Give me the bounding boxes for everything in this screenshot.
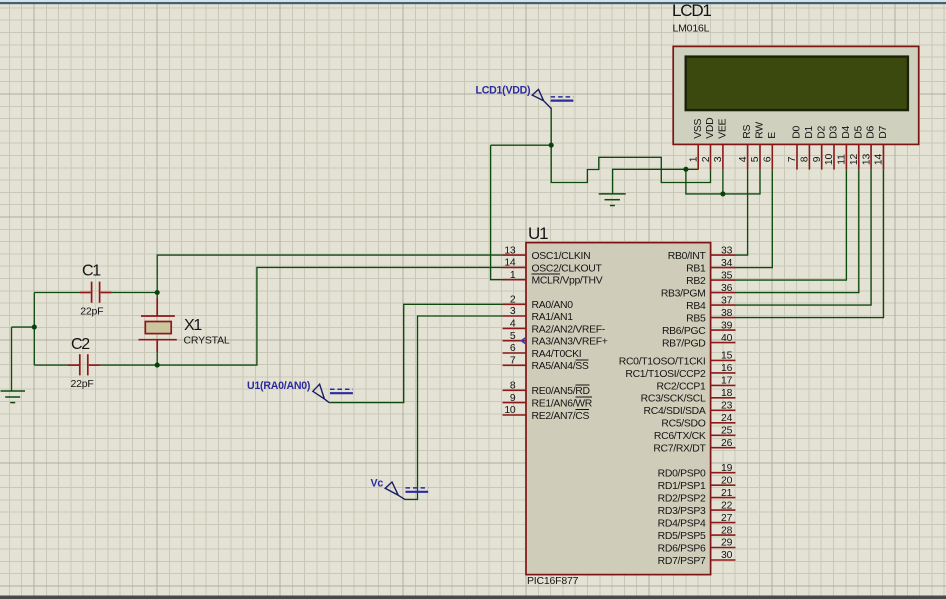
svg-text:D4: D4	[841, 125, 852, 138]
svg-text:RD1/PSP1: RD1/PSP1	[658, 481, 706, 492]
svg-text:RA1/AN1: RA1/AN1	[532, 312, 574, 323]
wire left vertical C1-C2	[33, 293, 35, 366]
svg-text:1: 1	[510, 270, 516, 281]
svg-text:VSS: VSS	[693, 118, 704, 138]
svg-text:RW: RW	[755, 122, 766, 139]
wire RB3 to LCD D5	[736, 170, 859, 293]
svg-text:D0: D0	[792, 125, 803, 138]
svg-text:20: 20	[721, 475, 733, 486]
wire GND1 to LCD RW	[686, 169, 760, 194]
svg-text:RC5/SDO: RC5/SDO	[661, 419, 705, 430]
svg-text:RC6/TX/CK: RC6/TX/CK	[654, 431, 706, 442]
svg-text:38: 38	[721, 308, 733, 319]
svg-text:40: 40	[721, 333, 733, 344]
svg-text:5: 5	[750, 156, 761, 162]
svg-text:C2: C2	[71, 336, 90, 353]
power flag Vc	[371, 478, 429, 500]
svg-text:RC2/CCP1: RC2/CCP1	[657, 381, 707, 392]
node VDD junction	[549, 143, 554, 148]
svg-text:D1: D1	[804, 125, 815, 138]
svg-text:RC7/RX/DT: RC7/RX/DT	[653, 444, 706, 455]
wire LCD VEE drop	[722, 170, 724, 194]
crystal X1	[139, 298, 230, 352]
svg-text:34: 34	[721, 258, 733, 269]
svg-text:RA5/AN4/SS: RA5/AN4/SS	[532, 361, 589, 372]
wire RB0 to LCD RS	[736, 170, 748, 256]
LCD LCD1 body	[673, 46, 919, 144]
svg-text:28: 28	[721, 525, 733, 536]
wire Vc flag to pin3	[405, 316, 503, 499]
svg-text:RD2/PSP2: RD2/PSP2	[658, 494, 706, 505]
svg-text:RB3/PGM: RB3/PGM	[661, 289, 706, 300]
svg-text:2: 2	[701, 156, 712, 162]
svg-text:RD0/PSP0: RD0/PSP0	[658, 469, 706, 480]
capacitor C2	[68, 336, 100, 390]
svg-text:RS: RS	[742, 124, 753, 138]
capacitor C1	[80, 263, 112, 318]
svg-text:RE1/AN6/WR: RE1/AN6/WR	[532, 399, 593, 410]
wire crystal top stub wire	[156, 293, 158, 299]
wire C2 left wire	[34, 364, 68, 366]
svg-text:D5: D5	[853, 125, 864, 138]
wire VDD flag drop	[550, 108, 552, 146]
svg-text:LCD1: LCD1	[672, 1, 711, 20]
svg-text:14: 14	[504, 258, 516, 269]
svg-text:RD3/PSP3: RD3/PSP3	[658, 506, 706, 517]
svg-text:OSC1/CLKIN: OSC1/CLKIN	[532, 251, 591, 262]
U1 left pin labels	[532, 251, 608, 422]
svg-text:25: 25	[721, 426, 733, 437]
wire OSC2 to crystal bottom	[157, 267, 502, 365]
svg-text:OSC2/CLKOUT: OSC2/CLKOUT	[532, 263, 603, 274]
svg-text:11: 11	[837, 154, 848, 165]
svg-text:RD7/PSP7: RD7/PSP7	[658, 556, 706, 567]
svg-text:RE2/AN7/CS: RE2/AN7/CS	[532, 411, 590, 422]
U1 right pins with numbers	[711, 255, 736, 560]
svg-text:22pF: 22pF	[71, 378, 94, 390]
svg-text:RA3/AN3/VREF+: RA3/AN3/VREF+	[532, 337, 608, 348]
svg-text:RB1: RB1	[686, 264, 706, 275]
svg-text:26: 26	[721, 438, 733, 449]
node crystal top junction	[155, 290, 160, 295]
wire RB4 to LCD D6	[736, 170, 872, 306]
svg-text:7: 7	[510, 356, 516, 367]
ground GND1 (LCD)	[599, 194, 626, 206]
svg-text:37: 37	[721, 295, 733, 306]
svg-text:6: 6	[763, 156, 774, 162]
U1 pin RA3 marker	[521, 337, 526, 344]
svg-text:7: 7	[787, 156, 798, 162]
wire VDD to LCD pin2	[551, 145, 710, 182]
power flag U1(RA0/AN0)	[247, 380, 353, 403]
wire crystal bottom stub wire	[156, 352, 158, 365]
svg-text:RB6/PGC: RB6/PGC	[662, 326, 706, 337]
svg-text:RA0/AN0: RA0/AN0	[532, 300, 574, 311]
svg-text:RD5/PSP5: RD5/PSP5	[658, 531, 706, 542]
wire OSC1 to crystal top	[157, 255, 502, 292]
svg-text:LCD1(VDD): LCD1(VDD)	[476, 85, 531, 97]
svg-text:36: 36	[721, 283, 733, 294]
svg-text:RA2/AN2/VREF-: RA2/AN2/VREF-	[532, 324, 605, 335]
svg-text:6: 6	[510, 343, 516, 354]
svg-text:1: 1	[688, 156, 699, 162]
svg-text:16: 16	[721, 363, 733, 374]
svg-text:23: 23	[721, 401, 733, 412]
svg-text:4: 4	[738, 156, 749, 162]
svg-text:24: 24	[721, 413, 733, 424]
svg-text:MCLR/Vpp/THV: MCLR/Vpp/THV	[532, 276, 603, 287]
svg-text:U1: U1	[528, 224, 548, 243]
svg-text:3: 3	[713, 156, 724, 162]
svg-text:9: 9	[510, 393, 516, 404]
svg-text:15: 15	[721, 351, 733, 362]
power flag LCD1(VDD)	[476, 85, 574, 109]
U1 right pin labels	[619, 251, 707, 567]
node VSS junction	[683, 167, 688, 172]
svg-text:30: 30	[721, 550, 733, 561]
svg-text:21: 21	[721, 488, 733, 499]
svg-text:D2: D2	[816, 125, 827, 138]
wire VDD junction to left	[491, 144, 552, 146]
IC U1 PIC16F877 body	[526, 224, 711, 587]
svg-text:RD4/PSP4: RD4/PSP4	[658, 519, 706, 530]
svg-text:2: 2	[510, 295, 516, 306]
svg-text:RE0/AN5/RD: RE0/AN5/RD	[532, 386, 590, 397]
svg-text:RB4: RB4	[686, 301, 706, 312]
svg-text:22pF: 22pF	[80, 306, 103, 318]
svg-text:X1: X1	[184, 317, 202, 334]
wire ground2 drop	[11, 327, 13, 391]
svg-text:10: 10	[504, 405, 516, 416]
wire RB5 to LCD D7	[736, 170, 884, 318]
svg-text:8: 8	[510, 381, 516, 392]
svg-text:9: 9	[812, 156, 823, 162]
svg-text:LM016L: LM016L	[673, 23, 710, 35]
svg-text:8: 8	[800, 156, 811, 162]
svg-text:RB5: RB5	[686, 314, 706, 325]
svg-text:5: 5	[510, 331, 516, 342]
U1 left pins with numbers	[503, 255, 527, 415]
svg-text:RB2: RB2	[686, 276, 706, 287]
U1 active-low overlines	[532, 274, 593, 409]
svg-text:D3: D3	[829, 125, 840, 138]
svg-text:13: 13	[861, 154, 872, 166]
svg-text:3: 3	[510, 306, 516, 317]
svg-text:RC3/SCK/SCL: RC3/SCK/SCL	[641, 394, 706, 405]
wire RB2 to LCD D4	[736, 170, 847, 281]
svg-text:39: 39	[721, 320, 733, 331]
svg-text:RC0/T1OSO/T1CKI: RC0/T1OSO/T1CKI	[619, 356, 706, 367]
svg-text:19: 19	[721, 463, 733, 474]
svg-text:27: 27	[721, 513, 733, 524]
svg-text:14: 14	[874, 154, 885, 166]
svg-text:RB7/PGD: RB7/PGD	[662, 339, 706, 350]
svg-text:RB0/INT: RB0/INT	[668, 251, 707, 262]
LCD pins 1-14	[698, 144, 883, 169]
svg-text:D6: D6	[866, 125, 877, 138]
wire C1 left wire	[34, 292, 80, 294]
svg-text:17: 17	[721, 376, 733, 387]
svg-text:RA4/T0CKI: RA4/T0CKI	[532, 349, 582, 360]
svg-text:VEE: VEE	[718, 118, 729, 138]
node crystal bottom junction	[155, 363, 160, 368]
svg-text:D7: D7	[878, 125, 889, 138]
svg-text:RD6/PSP6: RD6/PSP6	[658, 543, 706, 554]
svg-text:VDD: VDD	[705, 118, 716, 139]
node left junction	[32, 325, 37, 330]
LCD LCD1 title	[672, 1, 711, 35]
svg-text:RC1/T1OSI/CCP2: RC1/T1OSI/CCP2	[625, 369, 706, 380]
svg-text:4: 4	[510, 319, 516, 330]
svg-text:Vc: Vc	[371, 478, 384, 490]
svg-text:22: 22	[721, 500, 733, 511]
svg-text:33: 33	[721, 245, 733, 256]
ground GND2 (left)	[1, 391, 26, 403]
svg-text:CRYSTAL: CRYSTAL	[184, 335, 230, 347]
svg-text:PIC16F877: PIC16F877	[527, 575, 579, 587]
svg-text:18: 18	[721, 388, 733, 399]
svg-text:10: 10	[824, 154, 835, 166]
wire GND1 to LCD VSS	[613, 169, 699, 194]
wire RA0 flag to pin2	[329, 304, 502, 402]
svg-text:35: 35	[721, 270, 733, 281]
svg-text:E: E	[767, 132, 778, 139]
wire RB1 to LCD E	[736, 170, 773, 268]
wire left branch to ground	[12, 326, 35, 328]
wire VDD to MCLR pin1	[491, 145, 503, 280]
svg-text:C1: C1	[82, 263, 101, 280]
svg-text:13: 13	[504, 245, 516, 256]
wire C1 right to junction	[112, 292, 158, 294]
node VEE junction	[720, 191, 725, 196]
wire C2 right to junction	[100, 364, 158, 366]
svg-text:U1(RA0/AN0): U1(RA0/AN0)	[247, 380, 310, 392]
svg-text:12: 12	[849, 154, 860, 166]
svg-text:29: 29	[721, 538, 733, 549]
svg-text:RC4/SDI/SDA: RC4/SDI/SDA	[644, 406, 706, 417]
